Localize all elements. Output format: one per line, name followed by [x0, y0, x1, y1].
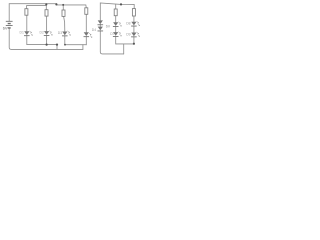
node: rail dot branch2: [45, 3, 47, 5]
LED B1: [113, 22, 118, 26]
svg-text:D8: D8: [126, 22, 130, 26]
arrows D1: [30, 31, 33, 36]
LED D6 (right panel left column lower): [98, 27, 103, 31]
wire: R4 stub + branch4 down: [85, 5, 88, 32]
svg-text:D9: D9: [126, 33, 130, 37]
wire: riser mid A to bottom rail: [56, 45, 58, 50]
svg-text:6V: 6V: [106, 24, 111, 28]
wire: R3 stub: [62, 5, 64, 10]
arrows D4: [89, 33, 92, 38]
node: rail dot branch3: [62, 4, 64, 6]
wire: left panel top rail upper: [9, 4, 56, 21]
wire: right riser to bottom rail: [123, 44, 125, 54]
wire: LED4 down to mid wire B: [85, 36, 87, 44]
wire: LED3 down + mid wire B: [65, 36, 87, 45]
svg-text:D2: D2: [40, 31, 44, 35]
wire: right battery column gap: [99, 24, 101, 26]
svg-text:6V: 6V: [3, 27, 8, 31]
svg-text:D4: D4: [92, 28, 96, 32]
wire: R6 corner stub: [133, 5, 135, 9]
arrows C2: [137, 32, 140, 37]
wire: branch2 vertical R2->LED2: [46, 16, 48, 31]
node: mid wire dot at LED3 corner: [64, 44, 66, 46]
arrows C1: [137, 21, 140, 26]
arrows B1: [118, 22, 121, 27]
LED D4: [84, 32, 89, 36]
node: right bottom dot string C: [133, 43, 135, 45]
wire: string B LED B2 down + bottom jog: [116, 36, 134, 44]
resistor R6: [132, 9, 135, 16]
arrows B2: [118, 32, 121, 37]
node: rail step blob: [55, 3, 57, 5]
wire: riser mid B to bottom rail: [82, 45, 84, 50]
wire: secondary top line from R1: [27, 6, 47, 9]
resistor R5: [114, 9, 117, 16]
arrows D3: [68, 31, 71, 36]
battery B1 (left panel, 6V): [6, 21, 13, 28]
LED symbols: triangle + bar + arrows: [24, 20, 137, 37]
wire: left panel top rail lower segment: [56, 4, 85, 5]
wire: right panel left wire lower: [100, 31, 123, 54]
resistor R3: [62, 10, 65, 16]
wire: R5 stub: [115, 4, 117, 9]
wire: string B LED B1 -> LED B2: [115, 26, 117, 32]
wire: LED2 down: [46, 35, 48, 44]
LED D2: [44, 31, 49, 35]
LED C1: [131, 22, 136, 26]
LED B2: [113, 32, 118, 36]
LED D3: [62, 32, 67, 36]
resistor R2: [45, 10, 48, 16]
wire: string C R6->LED C1: [133, 16, 135, 22]
wire: left panel bottom rail: [9, 29, 83, 50]
wire: branch3 vertical R3->LED3: [64, 16, 65, 31]
node: right rail dot: [120, 3, 122, 5]
LED C2: [131, 33, 136, 37]
LED emission arrows: [30, 21, 140, 37]
wire: LED1 down + mid wire A: [27, 35, 57, 44]
resistor R4: [85, 8, 88, 15]
wire: string C LED C2 down: [133, 37, 135, 44]
svg-text:D3: D3: [58, 31, 62, 35]
wire: R2 stub: [45, 4, 47, 10]
LED D5 (right panel left column upper): [98, 20, 103, 24]
svg-text:D7: D7: [110, 32, 114, 36]
resistor R1: [25, 9, 28, 16]
LED D1: [24, 31, 29, 35]
wire: string B R5->LED B1: [115, 16, 117, 23]
junction dots: [45, 3, 135, 45]
svg-text:D1: D1: [20, 31, 24, 35]
wire: right panel left wire + top rail: [100, 3, 134, 20]
wire: string C LED C1 -> LED C2: [133, 26, 135, 33]
arrows D2: [49, 31, 52, 36]
node: mid wire dot at LED2: [46, 44, 48, 46]
wire: branch1 vertical R1->LED1: [26, 15, 28, 31]
node: mid wire dot at riser: [56, 44, 58, 46]
